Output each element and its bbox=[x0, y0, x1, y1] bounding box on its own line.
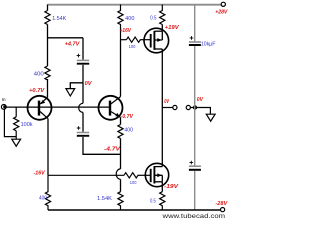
Q2 base bar bbox=[109, 101, 111, 116]
svg-text:400: 400 bbox=[125, 16, 134, 22]
M2 bottom stub bbox=[154, 181, 162, 183]
input jack J1 bbox=[1, 105, 6, 110]
wire 100k bottom bbox=[15, 131, 17, 139]
svg-text:+4.7V: +4.7V bbox=[65, 41, 80, 47]
svg-text:+19V: +19V bbox=[165, 25, 180, 31]
capacitor C4 bbox=[189, 165, 201, 167]
M2 substrate stub + arrow bbox=[154, 175, 162, 182]
ground G1 bbox=[12, 139, 21, 146]
hop H2 (vertical hops left over -16V wire) bbox=[116, 169, 120, 179]
resistor R1 1.54K bbox=[45, 11, 50, 25]
resistor R2 400 bbox=[45, 66, 50, 80]
svg-text:+0.7V: +0.7V bbox=[29, 88, 45, 94]
wire R1 to +4.7V node bbox=[47, 25, 49, 67]
jack shield wire bbox=[4, 109, 16, 136]
mosfet M2 circle bbox=[145, 163, 168, 186]
Q2 collector wire up to +16V node bbox=[120, 40, 122, 97]
resistor R10 0.5 (bottom) bbox=[160, 192, 165, 210]
+28V rail (gray top rail) bbox=[48, 4, 222, 6]
transistor Q2 (NPN) circle bbox=[99, 96, 123, 120]
M1 channel bar bbox=[153, 31, 155, 50]
Q2 emitter wire to R5 bbox=[120, 117, 122, 124]
-28V terminal bbox=[221, 208, 225, 212]
svg-text:100k: 100k bbox=[21, 122, 33, 128]
wire M1 source to M2 drain continues bbox=[161, 108, 163, 167]
capacitor C3 plus sign bbox=[190, 36, 194, 40]
wire 400 R2 above Q1 emitter bbox=[47, 79, 49, 97]
svg-text:100: 100 bbox=[129, 44, 136, 49]
svg-text:+28V: +28V bbox=[215, 10, 228, 16]
svg-text:400: 400 bbox=[39, 195, 47, 201]
wire R4 to M1 gate bbox=[140, 39, 151, 41]
svg-text:10kµF: 10kµF bbox=[201, 42, 216, 48]
return terminal (right) bbox=[186, 105, 190, 109]
input junction dot bbox=[3, 105, 6, 108]
Q1 emitter arrow (PNP, into base) bbox=[41, 100, 45, 104]
M1 top stub bbox=[154, 30, 162, 32]
Q1 base bar bbox=[38, 101, 40, 116]
resistor R3 400 (top) bbox=[118, 5, 123, 40]
svg-text:0V: 0V bbox=[197, 97, 204, 103]
M1 gate bar bbox=[150, 34, 152, 48]
capacitor C1 plus sign bbox=[77, 54, 81, 58]
svg-text:400: 400 bbox=[124, 127, 133, 133]
output terminal (left) bbox=[173, 105, 177, 109]
wire C1 column down to hop bbox=[82, 83, 84, 104]
resistor R8 400 (bottom left) bbox=[45, 175, 50, 210]
wire hop to R6 bbox=[120, 179, 122, 191]
svg-text:www.tubecad.com: www.tubecad.com bbox=[161, 213, 225, 219]
M2 channel bar bbox=[153, 166, 155, 184]
svg-text:0.5: 0.5 bbox=[150, 198, 156, 204]
svg-text:100: 100 bbox=[130, 180, 137, 185]
Q2 collector diagonal bbox=[111, 97, 121, 104]
wire C1 to ground tee bbox=[82, 65, 84, 83]
svg-text:-0.7V: -0.7V bbox=[121, 114, 134, 120]
-28V rail (bottom) bbox=[48, 209, 221, 211]
svg-text:-19V: -19V bbox=[164, 184, 179, 190]
+28V terminal bbox=[221, 2, 225, 6]
+4.7V node wire to C1 bbox=[48, 37, 84, 39]
hop H1 (vertical hops left over signal wire) bbox=[79, 103, 83, 112]
Q1 collector diagonal bbox=[40, 112, 48, 119]
svg-text:0V: 0V bbox=[164, 99, 169, 105]
resistor R9 0.5 (top) bbox=[160, 5, 165, 25]
wire 100k top bbox=[15, 107, 17, 117]
M2 gate bar bbox=[150, 169, 152, 182]
wire R5 to -4.7V node bbox=[120, 139, 122, 169]
capacitor C4 plus sign bbox=[190, 161, 194, 165]
wire R9 to M1 drain bbox=[161, 25, 163, 32]
wire rail to R1 bbox=[47, 5, 49, 11]
wire return terminal to ground node bbox=[190, 108, 210, 115]
svg-text:1.54K: 1.54K bbox=[97, 196, 112, 202]
ground G3 bbox=[206, 114, 215, 121]
M1 source wire down to output node bbox=[161, 49, 163, 108]
junction dot at cap column bbox=[193, 105, 197, 109]
-16V node wire to M2 gate resistor bbox=[48, 174, 124, 176]
gray column C3 to 0V node bbox=[194, 46, 196, 108]
svg-text:-4.7V: -4.7V bbox=[104, 147, 121, 153]
Q2 emitter arrow (NPN, outward) bbox=[115, 113, 120, 117]
Q1 emitter diagonal bbox=[40, 97, 48, 104]
resistor R5 400 bbox=[118, 125, 123, 139]
gray supply column to C3 bbox=[194, 5, 196, 42]
svg-text:-28V: -28V bbox=[215, 201, 227, 207]
svg-text:+16V: +16V bbox=[120, 28, 132, 34]
wire C2 to -4.7V node bbox=[83, 137, 121, 154]
svg-text:1.54K: 1.54K bbox=[52, 16, 66, 22]
svg-text:In: In bbox=[2, 97, 6, 102]
resistor R6 1.54K (bottom) bbox=[118, 192, 123, 210]
capacitor C2 plus sign bbox=[77, 126, 81, 130]
wire hop down to C2 bbox=[82, 112, 84, 131]
output wire to terminal bbox=[162, 107, 173, 109]
capacitor C2 bbox=[77, 132, 89, 134]
Q1 collector wire down bbox=[47, 119, 49, 176]
M2 source wire down bbox=[161, 182, 163, 192]
resistor 100k bbox=[14, 117, 19, 131]
signal wire input to Q2 base bbox=[5, 106, 110, 108]
wire R7 to M2 gate bbox=[138, 174, 151, 176]
transistor Q1 (PNP) circle bbox=[28, 96, 52, 120]
ground G2 bbox=[66, 89, 75, 96]
svg-text:0.5: 0.5 bbox=[150, 16, 156, 22]
Q2 emitter diagonal bbox=[111, 112, 121, 118]
capacitor C3 10kuF bbox=[189, 41, 201, 43]
gray column 0V node to C4 bbox=[194, 108, 196, 166]
capacitor C1 bbox=[77, 59, 89, 61]
svg-text:400: 400 bbox=[34, 71, 44, 77]
svg-text:0V: 0V bbox=[85, 81, 92, 87]
mosfet M1 circle bbox=[144, 28, 169, 53]
M1 bottom stub bbox=[154, 48, 162, 50]
M1 substrate stub + arrow bbox=[154, 31, 162, 40]
resistor R4 100 (horizontal) bbox=[126, 37, 140, 42]
resistor R7 100 (horizontal) bbox=[124, 173, 138, 178]
gray column C4 to -28V rail bbox=[194, 171, 196, 210]
svg-text:-16V: -16V bbox=[34, 170, 46, 176]
M2 top stub bbox=[154, 166, 162, 168]
wire node to C1 bbox=[82, 38, 84, 60]
wire tee to ground G2 bbox=[70, 83, 83, 89]
wire +16V node to R4 bbox=[121, 39, 127, 41]
